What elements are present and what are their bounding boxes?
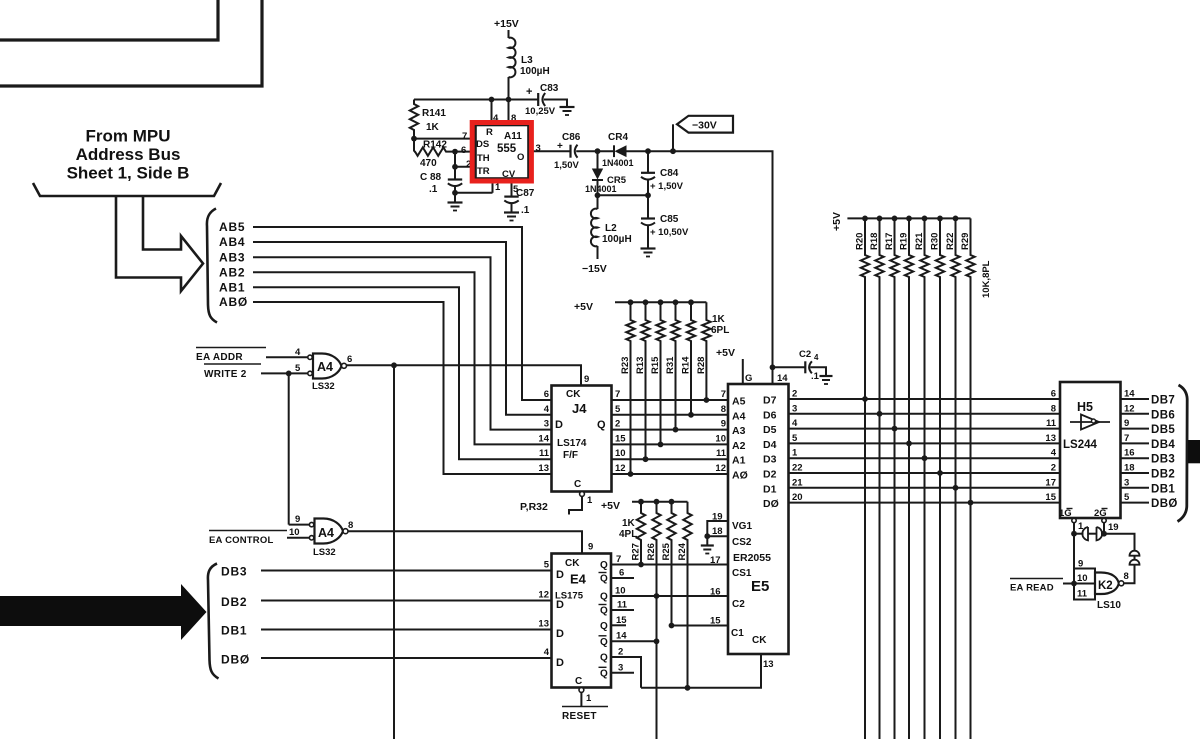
node R28 bottom	[704, 397, 710, 403]
svg-text:TH: TH	[477, 153, 490, 164]
label E5 right pin 21	[792, 477, 803, 488]
label H5 left pin 6	[1051, 389, 1056, 400]
svg-text:R25: R25	[661, 542, 672, 560]
svg-text:TR: TR	[477, 166, 490, 177]
svg-text:AB1: AB1	[219, 280, 245, 294]
label E5 A5	[732, 396, 746, 408]
node rail R31	[673, 299, 679, 305]
label J4 left pin 4	[544, 404, 550, 415]
wire gate1 output to J4 CK	[347, 365, 582, 385]
nand-gate K2 input box	[1074, 569, 1095, 600]
node R141 DS junction	[411, 136, 417, 142]
svg-text:VG1: VG1	[732, 521, 752, 532]
svg-text:DB2: DB2	[221, 595, 247, 609]
label R21	[914, 232, 925, 250]
label LS32 gate1	[312, 381, 335, 392]
svg-text:2: 2	[792, 389, 797, 400]
svg-text:11: 11	[1077, 589, 1088, 600]
wire J4 pin1 hook	[569, 492, 584, 515]
label E5 right pin 2	[792, 389, 797, 400]
wire +5V rail 8PL	[847, 217, 970, 219]
label pin10 gate2	[289, 527, 300, 538]
node rail R27	[638, 499, 644, 505]
svg-text:10K,8PL: 10K,8PL	[981, 260, 992, 298]
svg-text:10: 10	[289, 527, 300, 538]
svg-text:C: C	[575, 676, 582, 687]
svg-text:2: 2	[615, 419, 620, 430]
memory E5 ER2055 box	[728, 384, 789, 654]
svg-text:12: 12	[538, 590, 549, 601]
svg-text:A1: A1	[732, 455, 746, 467]
svg-text:.1: .1	[521, 205, 530, 216]
svg-text:9: 9	[1124, 418, 1129, 429]
wire pin8 stub	[508, 100, 510, 126]
label pin5	[513, 184, 519, 195]
label ER2055	[733, 552, 771, 564]
svg-text:EA CONTROL: EA CONTROL	[209, 535, 273, 546]
svg-text:C87: C87	[516, 188, 535, 199]
label pin5 gate	[295, 363, 301, 374]
label CR4 1N4001	[602, 132, 634, 168]
wire H5 pin 18 stub	[1121, 472, 1150, 474]
svg-text:DB3: DB3	[1151, 454, 1175, 466]
label H5 right pin 9	[1124, 418, 1129, 429]
label 1K 6PL	[711, 314, 729, 336]
label R29	[960, 233, 971, 250]
svg-text:20: 20	[792, 492, 803, 503]
frame inner corner line	[0, 0, 218, 40]
wire C83 to ground	[544, 100, 567, 108]
label ABB0	[219, 295, 248, 309]
svg-text:12: 12	[715, 463, 726, 474]
label H5 right pin 14	[1124, 389, 1135, 400]
power +5V label 4PL bank	[601, 500, 620, 512]
label R142 470	[420, 140, 447, 170]
label pin13 E5	[763, 659, 774, 670]
label DB3	[221, 565, 247, 579]
svg-text:1,50V: 1,50V	[554, 160, 579, 171]
svg-text:R15: R15	[650, 356, 661, 374]
svg-text:Q: Q	[600, 592, 608, 603]
label R25	[661, 542, 672, 560]
label J4 left pin 14	[538, 433, 549, 444]
label E4 pin 13	[538, 619, 549, 630]
label pin3	[536, 143, 541, 154]
nand-gate K2 body	[1095, 573, 1124, 595]
capacitor C86	[571, 145, 578, 158]
label E4 Q1	[599, 573, 609, 585]
label CK J4	[566, 389, 581, 400]
label R27	[631, 543, 642, 560]
wire C1 row	[672, 625, 729, 627]
svg-text:4: 4	[1051, 448, 1057, 459]
wire E4 pin11 stub	[611, 609, 634, 611]
svg-text:WRITE 2: WRITE 2	[204, 369, 247, 380]
resistor R20	[861, 218, 869, 739]
label H5 right pin 7	[1124, 433, 1129, 444]
wire top rail R141 to C83	[414, 99, 538, 101]
label H5 right pin 3	[1124, 477, 1129, 488]
wire ABB0 to J4	[253, 302, 552, 474]
or-gate A4 second	[309, 519, 348, 544]
node rail R23	[628, 299, 634, 305]
svg-text:A3: A3	[732, 425, 746, 437]
buffer symbol	[1070, 415, 1110, 430]
wire pin19 right and down	[1104, 534, 1135, 551]
label H5 left pin 13	[1045, 433, 1056, 444]
label TR	[477, 166, 490, 177]
svg-text:.1: .1	[811, 371, 820, 382]
label E5 left pin 11	[716, 448, 727, 459]
svg-text:12: 12	[615, 463, 626, 474]
label J4 pin1	[587, 495, 593, 506]
label E5 AA0	[732, 470, 748, 482]
svg-text:3: 3	[536, 143, 541, 154]
label F/F	[563, 450, 578, 461]
label E5 D7	[763, 395, 777, 407]
node CS2 ground	[704, 533, 710, 539]
svg-text:R17: R17	[884, 233, 895, 250]
node rail R26	[654, 499, 660, 505]
op-amp U A11 555 timer box	[476, 125, 529, 179]
label J4 right pin 12	[615, 463, 626, 474]
label E4 Q7	[599, 667, 609, 679]
svg-text:470: 470	[420, 158, 437, 169]
svg-text:+5V: +5V	[716, 347, 735, 359]
label R22	[945, 233, 956, 250]
svg-text:R30: R30	[930, 233, 941, 250]
label H5 left pin 2	[1051, 463, 1056, 474]
clock driver symbol	[1082, 527, 1102, 540]
wire H5 pin 5 stub	[1121, 502, 1150, 504]
svg-text:A2: A2	[732, 440, 746, 452]
svg-text:6: 6	[544, 389, 549, 400]
svg-text:H5: H5	[1077, 400, 1093, 414]
wire E5 D0 to H5	[789, 502, 1061, 504]
resistor R18	[875, 218, 883, 739]
svg-text:6: 6	[347, 354, 352, 365]
svg-text:2: 2	[618, 647, 623, 658]
svg-text:6: 6	[461, 145, 466, 156]
label D E4 0	[556, 569, 564, 581]
svg-text:DB7: DB7	[1151, 395, 1175, 407]
svg-text:8: 8	[1051, 403, 1056, 414]
label E4 pin3	[618, 663, 623, 674]
svg-text:6PL: 6PL	[711, 325, 729, 336]
label E5 D4	[763, 439, 777, 451]
svg-text:C2: C2	[732, 599, 745, 610]
resistor R23	[626, 302, 634, 474]
svg-text:4: 4	[792, 418, 798, 429]
svg-text:Sheet 1, Side B: Sheet 1, Side B	[67, 164, 190, 183]
label E5	[751, 578, 769, 595]
node rail R25	[669, 499, 675, 505]
label C88 .1	[420, 172, 442, 195]
svg-text:6: 6	[619, 568, 624, 579]
label DB2	[221, 595, 247, 609]
wire -30V tag stem	[672, 124, 674, 151]
svg-text:Q: Q	[600, 574, 608, 585]
label H5 left pin 8	[1051, 403, 1056, 414]
svg-text:CV: CV	[502, 169, 516, 180]
wire TR pin2	[455, 166, 475, 168]
label AB3	[219, 250, 245, 264]
svg-text:R: R	[486, 127, 493, 138]
label J4 right pin 5	[615, 404, 621, 415]
svg-text:EA ADDR: EA ADDR	[196, 352, 243, 363]
wire CR5 to C84 bottom	[598, 194, 649, 196]
label L3 100uH	[520, 55, 550, 77]
svg-text:8: 8	[348, 520, 353, 531]
label K2	[1098, 580, 1113, 592]
power -15V label	[582, 263, 607, 275]
svg-text:13: 13	[538, 463, 549, 474]
svg-text:R13: R13	[635, 357, 646, 374]
label pin19 H5	[1108, 522, 1119, 533]
label E5 DD0	[763, 498, 779, 510]
wire DB2 to E4	[261, 600, 552, 602]
svg-text:9: 9	[721, 419, 726, 430]
svg-text:Q: Q	[600, 560, 608, 571]
wire H5 pin1 bubble	[1072, 518, 1076, 568]
label C2	[732, 599, 745, 610]
svg-text:−15V: −15V	[582, 263, 607, 275]
resistor R19	[905, 218, 913, 739]
delay element upper	[1130, 551, 1140, 556]
label E4 pin14	[616, 631, 627, 642]
wire DBB0 to E4	[261, 657, 552, 659]
label C87 .1	[516, 188, 535, 216]
svg-text:+5V: +5V	[831, 212, 843, 231]
node R19 row	[906, 441, 912, 447]
wire J4 pin 2 to E5	[612, 429, 729, 431]
svg-text:R142: R142	[423, 140, 447, 151]
svg-text:D1: D1	[763, 483, 777, 495]
label pin15 E5	[710, 616, 721, 627]
label pin18 E5	[712, 526, 723, 537]
wire +5V to E5 pin G	[742, 359, 744, 384]
node E5 pin14 C24 tap	[770, 364, 776, 370]
svg-text:Q: Q	[600, 621, 608, 632]
svg-text:1K: 1K	[712, 314, 726, 325]
svg-text:3: 3	[1124, 477, 1129, 488]
svg-text:10,25V: 10,25V	[525, 106, 556, 117]
wire DS pin7	[414, 138, 475, 140]
label DB1	[1151, 483, 1175, 495]
label DS	[476, 139, 489, 150]
label pin1 H5	[1078, 521, 1084, 532]
svg-text:14: 14	[538, 433, 549, 444]
label E5 left pin 10	[715, 433, 726, 444]
label DB6	[1151, 409, 1175, 421]
label E4 pin2	[618, 647, 623, 658]
buffer H5 LS244 box	[1060, 382, 1121, 518]
label R15	[650, 356, 661, 374]
label R18	[869, 233, 880, 250]
label pin4 gate	[295, 347, 301, 358]
wire R141 to R142	[413, 139, 415, 152]
svg-text:LS244: LS244	[1063, 439, 1097, 451]
svg-text:4: 4	[544, 404, 550, 415]
power +5V label E5	[716, 347, 735, 359]
svg-text:L3: L3	[521, 55, 533, 66]
node rail R19	[906, 216, 912, 222]
svg-text:11: 11	[1046, 418, 1057, 429]
label E4 pin 5	[544, 560, 550, 571]
flip-flop E4 LS175 box	[552, 554, 612, 688]
label 1K 4PL	[619, 518, 637, 540]
wire E5 D4 to H5	[789, 442, 1061, 444]
wire pin1 to clock symbol	[1074, 533, 1084, 535]
node R31 bottom	[673, 427, 679, 433]
label J4 right pin 2	[615, 419, 620, 430]
label E4 Q2	[600, 592, 608, 603]
svg-text:9: 9	[1078, 559, 1083, 570]
node R30 row	[937, 470, 943, 476]
label E5 A1	[732, 455, 746, 467]
svg-text:21: 21	[792, 477, 803, 488]
svg-text:Address Bus: Address Bus	[76, 145, 181, 164]
wire into gate2 pin9	[289, 524, 310, 526]
label CK E5	[752, 635, 767, 646]
wire EA ADDR to gate	[266, 356, 308, 358]
label J4	[572, 401, 587, 416]
capacitor C88	[448, 180, 462, 187]
label C85 10.50V	[650, 214, 689, 238]
label AB2	[219, 265, 245, 279]
svg-text:8: 8	[721, 404, 726, 415]
label E5 D3	[763, 454, 777, 466]
label L2 100uH	[602, 223, 632, 245]
power +5V label 8PL bank	[831, 212, 843, 231]
svg-text:R28: R28	[696, 357, 707, 374]
svg-text:7: 7	[462, 131, 467, 142]
node rail R21	[922, 216, 928, 222]
label C1	[731, 628, 744, 639]
wire C87 to ground	[511, 202, 513, 212]
label EA READ	[1010, 579, 1063, 594]
wire E5 CK net	[641, 654, 761, 688]
label VG1	[732, 521, 752, 532]
label pin8 gate2	[348, 520, 353, 531]
svg-text:From MPU: From MPU	[86, 127, 171, 146]
wire pin4 stub	[491, 100, 493, 126]
label O output	[517, 152, 524, 163]
node R13 bottom	[643, 456, 649, 462]
label H5 right pin 12	[1124, 403, 1135, 414]
wire E5 D6 to H5	[789, 413, 1061, 415]
svg-text:1: 1	[587, 495, 593, 506]
node rail R14	[688, 299, 694, 305]
svg-text:R23: R23	[620, 357, 631, 374]
svg-text:ABØ: ABØ	[219, 295, 248, 309]
label pin16 E5	[710, 587, 721, 598]
node R14 bottom	[688, 412, 694, 418]
svg-text:DB2: DB2	[1151, 469, 1175, 481]
node rail R18	[877, 216, 883, 222]
svg-text:1K: 1K	[622, 518, 636, 529]
svg-text:9: 9	[588, 542, 593, 553]
svg-text:555: 555	[497, 143, 517, 155]
label DB1	[221, 624, 247, 638]
label AB1	[219, 280, 245, 294]
diode CR5	[592, 151, 603, 195]
bus bracket DB	[208, 564, 219, 679]
label H5	[1077, 400, 1093, 414]
label R14	[681, 356, 692, 374]
svg-text:100µH: 100µH	[520, 66, 550, 77]
wire +5V rail 6PL	[615, 301, 706, 303]
label LS174	[557, 438, 587, 449]
svg-text:14: 14	[616, 631, 627, 642]
label D E4 1	[556, 599, 564, 611]
svg-text:13: 13	[1045, 433, 1056, 444]
label P R32	[520, 501, 548, 513]
svg-text:4PL: 4PL	[619, 529, 637, 540]
label Q J4	[597, 419, 606, 431]
svg-text:10: 10	[1077, 573, 1088, 584]
resistor R24	[683, 502, 691, 688]
svg-text:J4: J4	[572, 401, 587, 416]
label pin6 gate1	[347, 354, 352, 365]
svg-text:+ 10,50V: + 10,50V	[650, 227, 689, 238]
node rail R20	[862, 216, 868, 222]
svg-text:DS: DS	[476, 139, 489, 150]
label + C86 1.50V	[554, 132, 581, 171]
node TH junction	[452, 149, 458, 155]
svg-text:R24: R24	[677, 542, 688, 560]
wire H5 pin 16 stub	[1121, 457, 1150, 459]
wire EA READ to K2	[1063, 583, 1074, 585]
flag -30V tag	[677, 116, 733, 133]
svg-text:4: 4	[814, 353, 819, 362]
label H5 right pin 5	[1124, 492, 1130, 503]
node R21 row	[922, 455, 928, 461]
svg-text:C86: C86	[562, 132, 581, 143]
label DB7	[1151, 395, 1175, 407]
node R26 C2	[654, 593, 660, 599]
node R26 pin14 row	[654, 638, 660, 644]
svg-text:DB1: DB1	[1151, 483, 1175, 495]
svg-text:5: 5	[544, 560, 550, 571]
svg-text:11: 11	[617, 600, 628, 611]
wire E5 D7 to H5	[789, 398, 1061, 400]
label E4 Q3	[599, 605, 609, 617]
node R17 row	[892, 426, 898, 432]
label D J4	[555, 419, 563, 431]
svg-text:3: 3	[544, 419, 549, 430]
wire AB4 to J4	[253, 242, 552, 415]
power +5V label 6PL bank	[574, 301, 593, 313]
resistor R25	[667, 502, 675, 626]
svg-text:A4: A4	[732, 410, 746, 422]
svg-text:AB4: AB4	[219, 235, 245, 249]
svg-text:D: D	[556, 657, 564, 669]
svg-text:P,R32: P,R32	[520, 501, 548, 513]
svg-text:D: D	[556, 628, 564, 640]
label EA ADDR	[196, 348, 266, 364]
wire E4 pin14	[611, 640, 657, 642]
svg-text:Q: Q	[600, 653, 608, 664]
label J4 left pin 11	[539, 448, 550, 459]
or-gate A4 first	[308, 354, 347, 379]
svg-text:11: 11	[539, 448, 550, 459]
wire +5V rail 4PL	[632, 501, 688, 503]
red annotation box around 555	[472, 123, 531, 182]
resistor R13	[641, 302, 649, 459]
label EA CONTROL	[209, 531, 287, 547]
svg-text:7: 7	[615, 389, 620, 400]
